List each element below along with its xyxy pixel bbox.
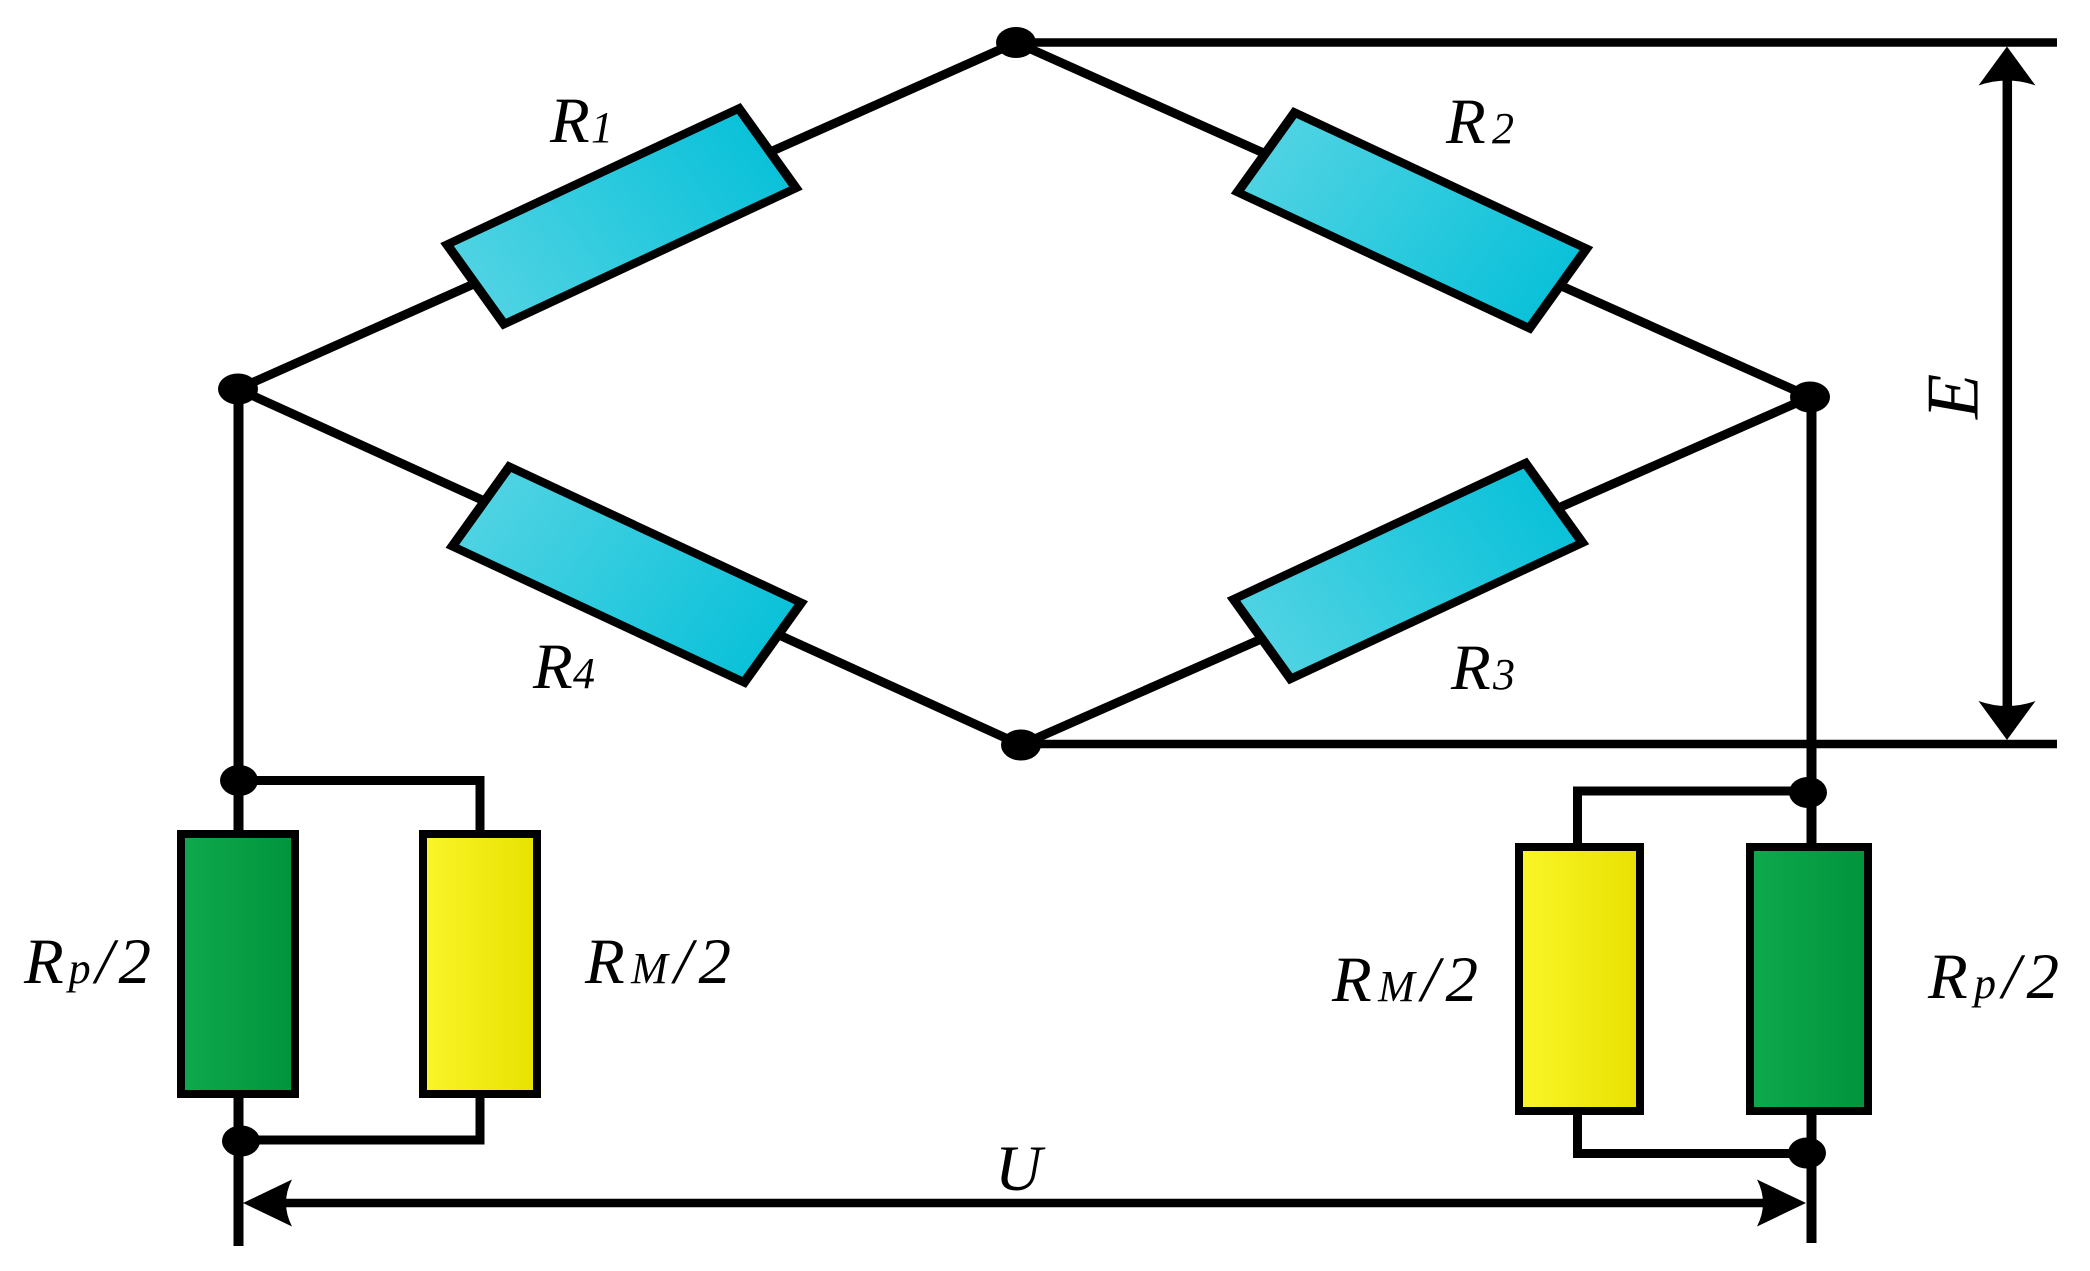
node left [218, 374, 258, 405]
node top [996, 27, 1036, 58]
resistor Rp/2 right green [1750, 847, 1868, 1111]
dimension E bottom arrow [1979, 701, 2036, 740]
resistor R4 [452, 467, 801, 683]
junction right top [1789, 777, 1827, 808]
wire left parallel branch top [239, 781, 480, 833]
dimension U left arrow [243, 1180, 292, 1227]
dimension U line [280, 1199, 1770, 1208]
wire bottom horizontal to E line [1021, 740, 2057, 749]
svg-text:E: E [1913, 374, 1995, 420]
svg-text:U: U [995, 1133, 1046, 1205]
wire left vertical [234, 389, 244, 1246]
dimension U right arrow [1757, 1180, 1806, 1227]
wire left parallel branch bottom [241, 1096, 480, 1140]
wire right parallel branch top [1578, 791, 1809, 845]
wire L-T bridge arm [238, 43, 1016, 390]
resistor RM/2 left yellow [423, 834, 537, 1094]
dimension E line [2003, 78, 2013, 708]
junction right bottom [1788, 1138, 1826, 1169]
resistor R3 [1234, 463, 1583, 679]
node bottom [1001, 730, 1041, 761]
wire L-B bridge arm [238, 389, 1021, 745]
junction left top [220, 765, 258, 796]
resistor RM/2 right yellow [1519, 847, 1640, 1111]
resistor R1 [447, 108, 796, 324]
wire B-R bridge arm [1021, 397, 1810, 745]
resistor R2 [1238, 113, 1587, 329]
wire right vertical [1807, 397, 1817, 1243]
wire top horizontal to E line [1016, 38, 2057, 47]
node right [1790, 382, 1830, 413]
resistor Rp/2 left green [181, 834, 295, 1094]
wire right parallel branch bottom [1578, 1113, 1808, 1154]
wire T-R bridge arm [1016, 43, 1810, 398]
dimension E top arrow [1979, 47, 2036, 86]
junction left bottom [222, 1126, 260, 1157]
